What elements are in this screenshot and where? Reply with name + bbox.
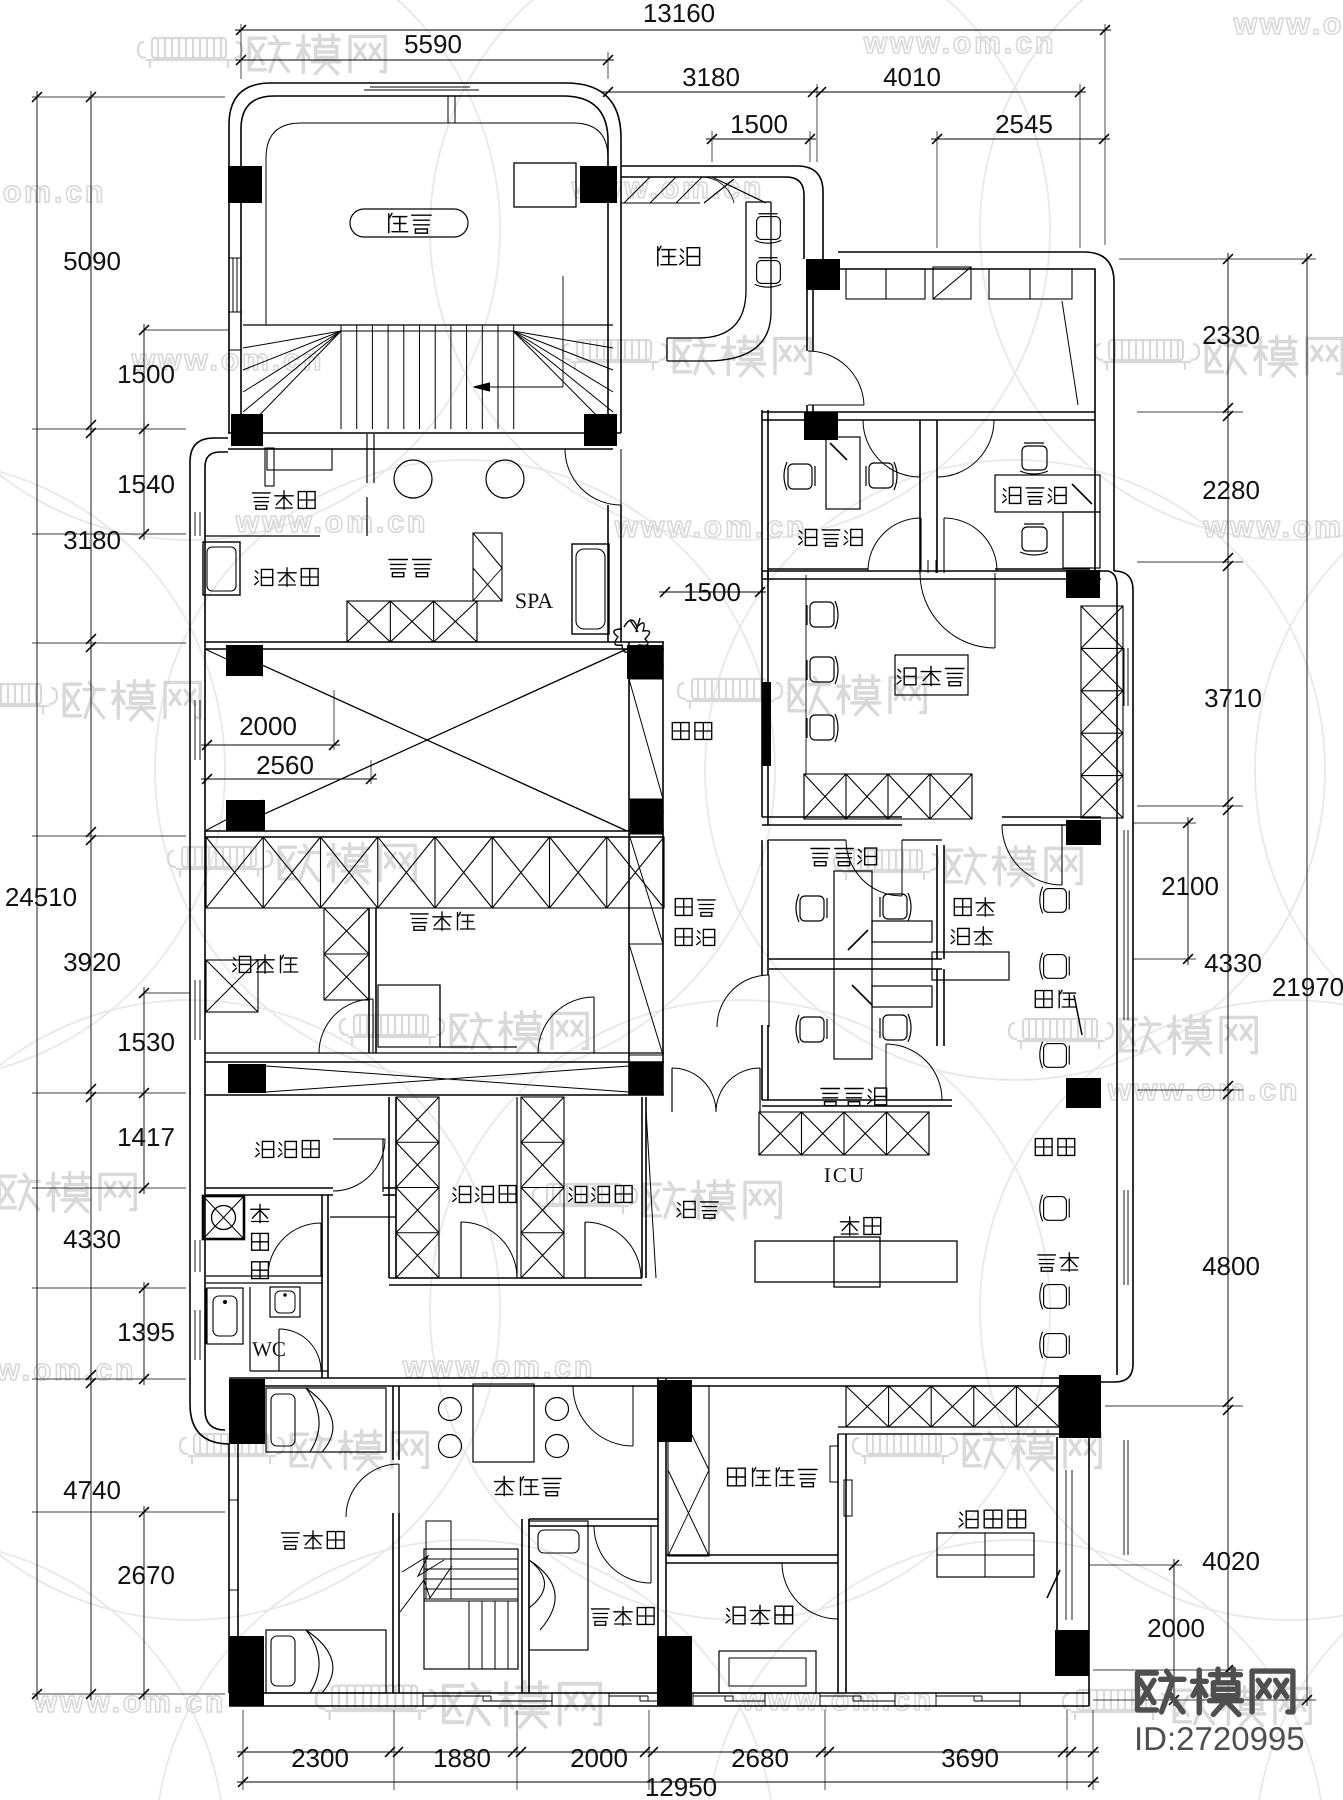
svg-text:1417: 1417 bbox=[117, 1122, 175, 1152]
svg-text:4010: 4010 bbox=[883, 62, 941, 92]
svg-text:ICU: ICU bbox=[824, 1163, 866, 1187]
svg-text:3690: 3690 bbox=[941, 1743, 999, 1773]
svg-text:4740: 4740 bbox=[63, 1475, 121, 1505]
svg-text:4330: 4330 bbox=[63, 1224, 121, 1254]
svg-text:2000: 2000 bbox=[239, 711, 297, 741]
svg-text:2000: 2000 bbox=[570, 1743, 628, 1773]
svg-text:5590: 5590 bbox=[404, 29, 462, 59]
svg-text:1530: 1530 bbox=[117, 1027, 175, 1057]
svg-text:2670: 2670 bbox=[117, 1560, 175, 1590]
svg-text:4800: 4800 bbox=[1202, 1251, 1260, 1281]
svg-text:5090: 5090 bbox=[63, 246, 121, 276]
svg-text:2300: 2300 bbox=[291, 1743, 349, 1773]
svg-text:www.om.cn: www.om.cn bbox=[863, 27, 1057, 60]
svg-text:www.om.cn: www.om.cn bbox=[402, 1351, 596, 1384]
svg-text:2330: 2330 bbox=[1202, 320, 1260, 350]
svg-text:www.om.cn: www.om.cn bbox=[1107, 1074, 1301, 1107]
svg-text:2680: 2680 bbox=[731, 1743, 789, 1773]
svg-text:2545: 2545 bbox=[995, 109, 1053, 139]
svg-text:12950: 12950 bbox=[645, 1772, 717, 1800]
svg-text:www.om.cn: www.om.cn bbox=[0, 1354, 136, 1387]
svg-text:2560: 2560 bbox=[256, 750, 314, 780]
svg-text:1540: 1540 bbox=[117, 469, 175, 499]
svg-text:4330: 4330 bbox=[1204, 948, 1262, 978]
svg-text:1500: 1500 bbox=[730, 109, 788, 139]
svg-text:3920: 3920 bbox=[63, 947, 121, 977]
svg-text:4020: 4020 bbox=[1202, 1546, 1260, 1576]
svg-text:1880: 1880 bbox=[433, 1743, 491, 1773]
svg-text:www.om.cn: www.om.cn bbox=[235, 506, 429, 539]
svg-text:www.om.cn: www.om.cn bbox=[1233, 8, 1343, 41]
svg-text:3180: 3180 bbox=[63, 525, 121, 555]
svg-text:1395: 1395 bbox=[117, 1317, 175, 1347]
svg-text:www.om.cn: www.om.cn bbox=[1203, 511, 1343, 544]
svg-text:2280: 2280 bbox=[1202, 475, 1260, 505]
svg-text:21970: 21970 bbox=[1272, 972, 1343, 1002]
svg-text:1500: 1500 bbox=[117, 359, 175, 389]
svg-text:3710: 3710 bbox=[1204, 683, 1262, 713]
svg-text:24510: 24510 bbox=[5, 882, 77, 912]
svg-text:SPA: SPA bbox=[515, 588, 553, 613]
svg-text:www.om.cn: www.om.cn bbox=[614, 511, 808, 544]
svg-text:WC: WC bbox=[252, 1337, 286, 1361]
svg-text:3180: 3180 bbox=[682, 62, 740, 92]
svg-text:2000: 2000 bbox=[1147, 1613, 1205, 1643]
svg-text:13160: 13160 bbox=[643, 0, 715, 28]
svg-text:www.om.cn: www.om.cn bbox=[0, 176, 106, 209]
svg-text:www.om.cn: www.om.cn bbox=[33, 1686, 227, 1719]
svg-text:2100: 2100 bbox=[1161, 871, 1219, 901]
svg-text:1500: 1500 bbox=[683, 577, 741, 607]
svg-text:ID:2720995: ID:2720995 bbox=[1134, 1720, 1305, 1757]
